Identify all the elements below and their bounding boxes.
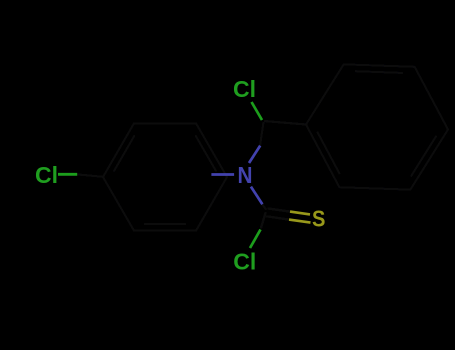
double bond inner line lower-left edge — [317, 132, 340, 175]
benzene ring (4-chlorophenyl, left) — [103, 123, 227, 230]
wire: Cl to CH bond (green, top) — [252, 102, 263, 120]
wire: C=S double bond upper line (olive) — [290, 212, 310, 215]
double bond inner line lower-right edge — [411, 136, 437, 177]
wire: C to Cl bond gray half (bottom) — [261, 212, 266, 229]
wire: CH to phenyl ring bond — [264, 121, 306, 125]
wire: N to C(=S) bond (blue) — [251, 187, 263, 205]
double bond inner line upper-left edge — [114, 135, 135, 172]
svg-text:Cl: Cl — [35, 162, 58, 188]
wire: C=S double bond lower line (olive) — [289, 220, 311, 223]
wire: gray half of N-C(=S) bond — [262, 204, 266, 210]
wire: N to CH bond (blue) — [249, 146, 260, 163]
svg-text:Cl: Cl — [233, 76, 256, 102]
benzene ring (phenyl, right) — [306, 64, 448, 189]
wire: C=S double bond lower line gray half — [266, 216, 289, 219]
svg-text:N: N — [238, 162, 253, 188]
wire: C to Cl bond (green, bottom) — [250, 230, 261, 249]
double bond inner line upper-right edge — [195, 135, 216, 172]
wire: gray half of N-CH bond — [260, 122, 264, 146]
double bond inner line top edge — [355, 71, 403, 73]
wire: C=S double bond upper line gray half — [268, 208, 291, 211]
double bond inner line bottom edge — [144, 223, 186, 225]
svg-text:S: S — [312, 205, 325, 231]
wire: ring to N bond (blue) — [211, 173, 234, 176]
svg-text:Cl: Cl — [233, 249, 256, 275]
wire: Cl to left ring bond (green) — [58, 173, 77, 176]
wire: gray half of Cl-ring bond — [77, 174, 103, 176]
